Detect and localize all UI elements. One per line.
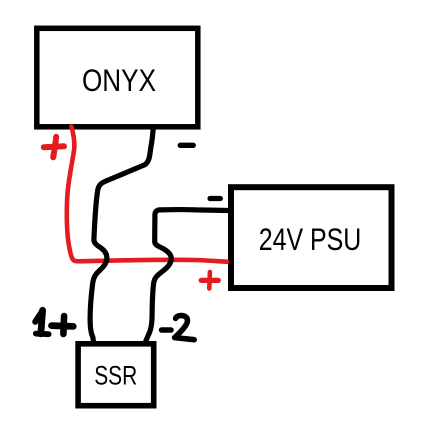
svg-text:ONYX: ONYX — [82, 63, 156, 98]
svg-text:24V PSU: 24V PSU — [259, 221, 362, 257]
svg-text:SSR: SSR — [94, 359, 137, 390]
